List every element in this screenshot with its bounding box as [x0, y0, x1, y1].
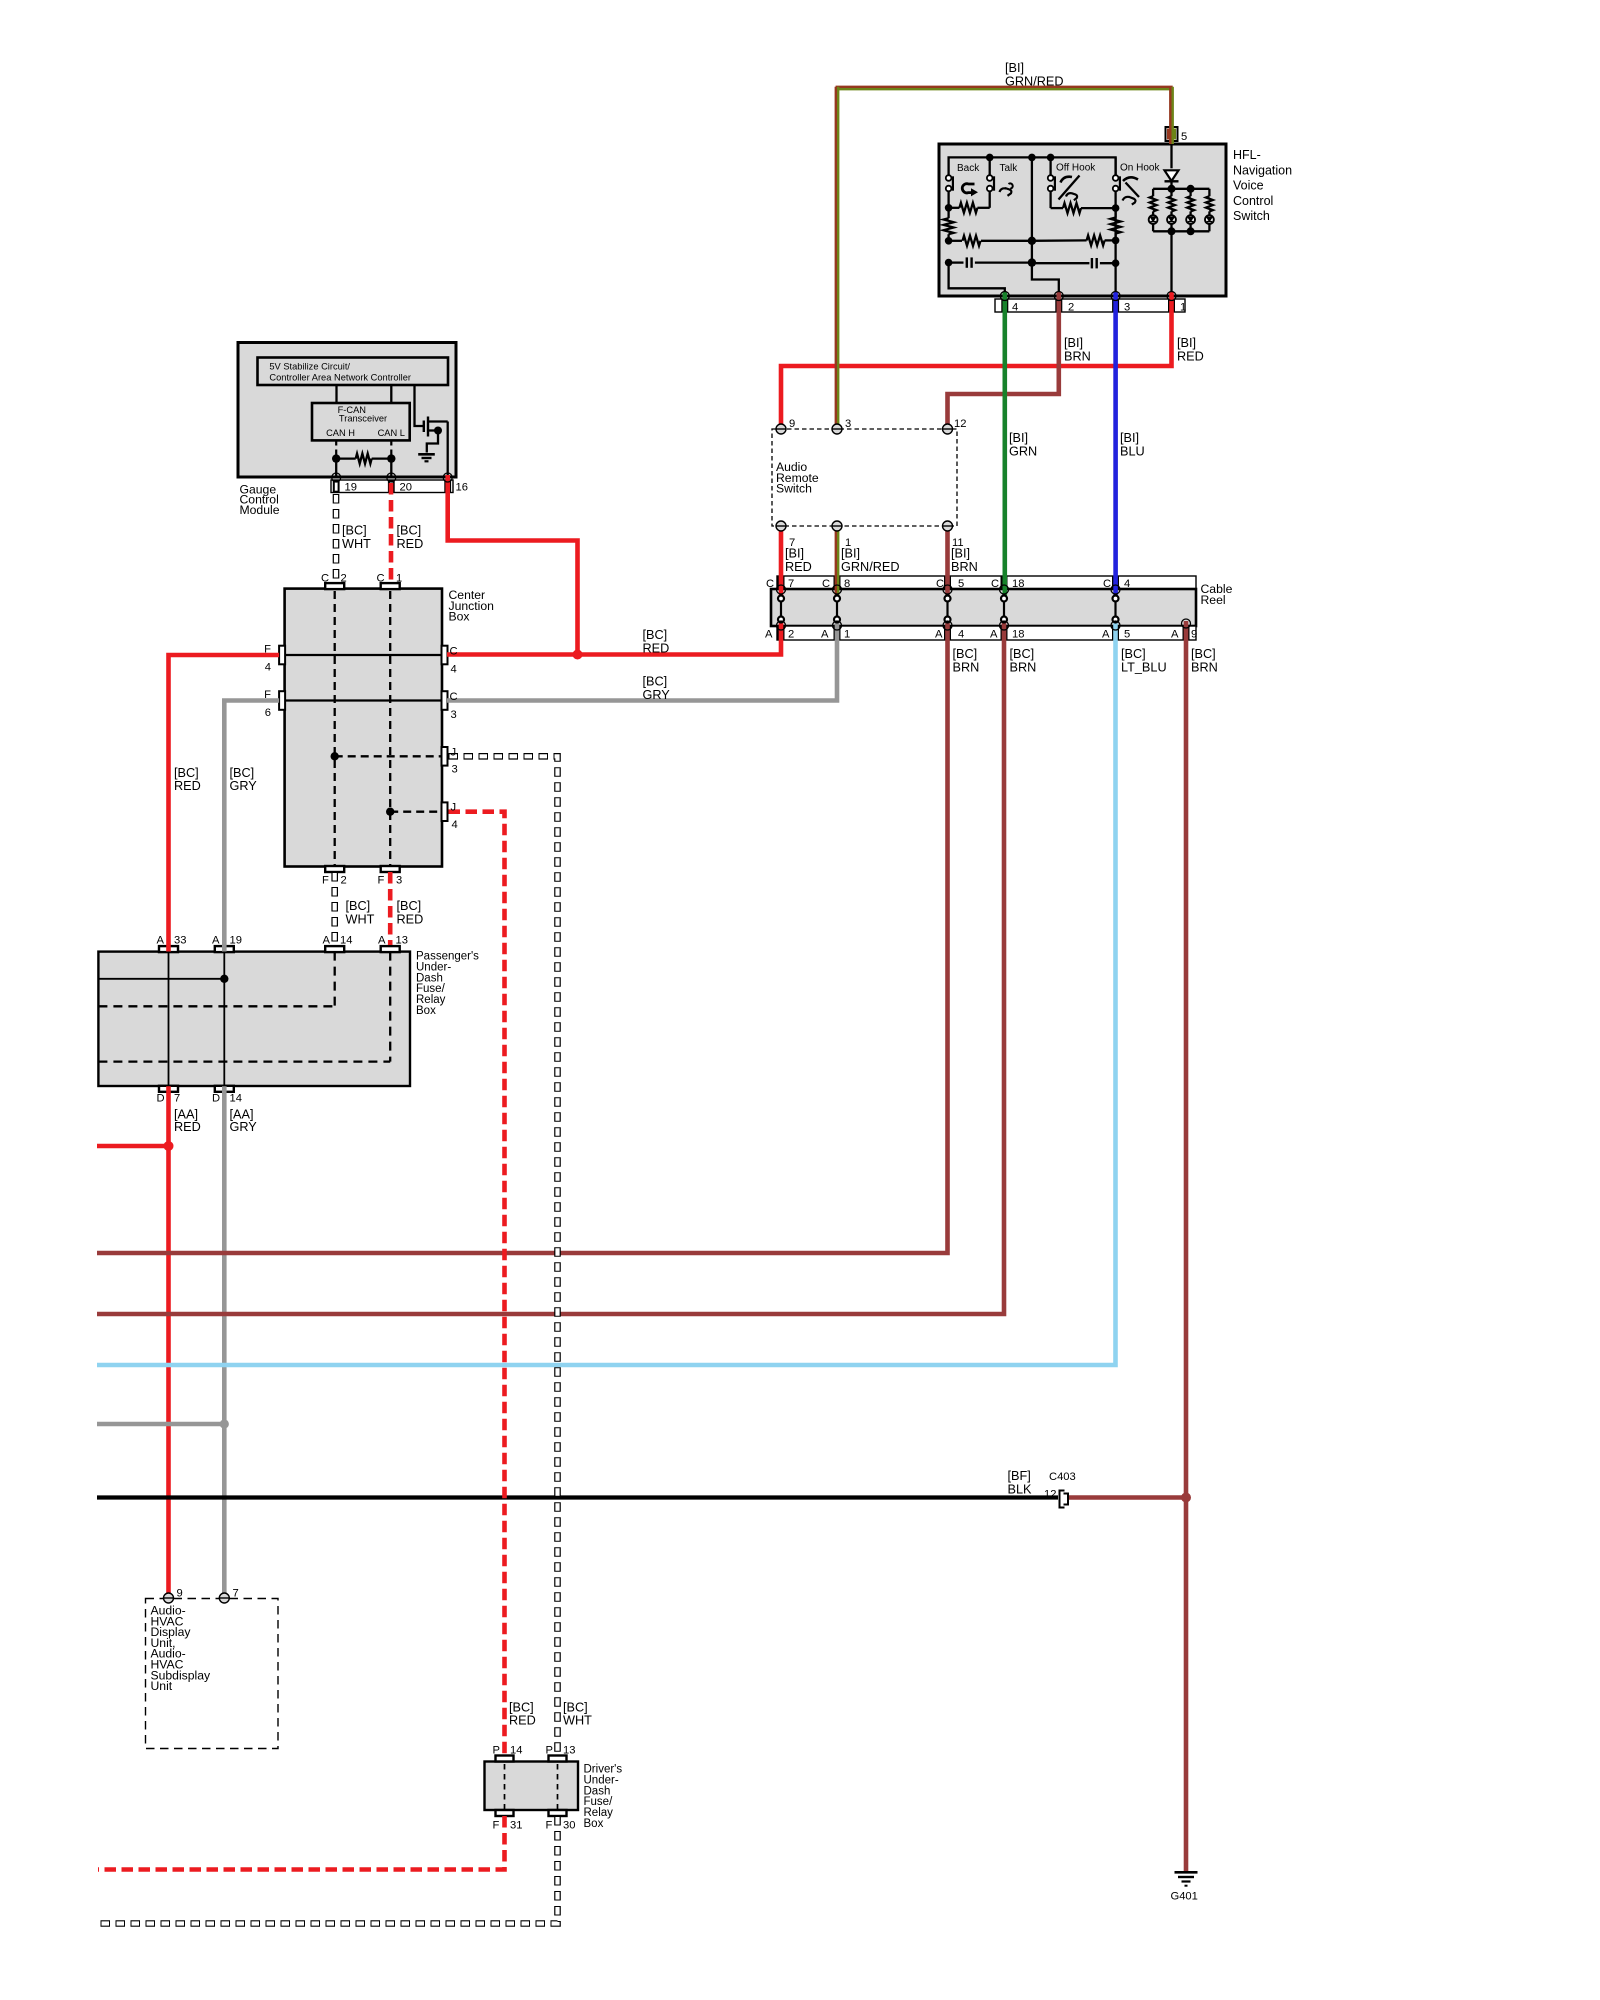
pin circles of HFL bottom row [1000, 292, 1009, 301]
resistor vertical below Back node [947, 208, 949, 218]
svg-text:RED: RED [509, 1714, 536, 1728]
resistor row 2 to center bus [949, 240, 962, 242]
wire [BI] GRN HFL pin 4 to Cable Reel C18 [1002, 292, 1007, 598]
svg-text:Module: Module [240, 503, 280, 517]
wire CAN L node to pin 20 [390, 459, 392, 477]
capacitor row right [1032, 262, 1090, 264]
pin C2 of Center Junction Box [325, 583, 344, 589]
svg-text:On Hook: On Hook [1120, 163, 1160, 174]
pin C3 of Center Junction Box [442, 691, 448, 710]
Cable Reel C-row connector strip [777, 576, 1196, 589]
internal line A33 to D7 [168, 952, 170, 1086]
svg-text:A: A [935, 629, 943, 641]
svg-text:20: 20 [400, 481, 412, 493]
wire controller to F-CAN transceiver CAN H side [335, 385, 337, 403]
transistor in Gauge Control Module [423, 421, 425, 433]
pin D14 of fuse box [215, 1086, 234, 1092]
svg-text:4: 4 [1012, 302, 1018, 314]
svg-text:4: 4 [958, 629, 964, 641]
junction dot brown at C403 wire [1181, 1493, 1191, 1503]
svg-text:Switch: Switch [1233, 209, 1270, 223]
wire controller to F-CAN transceiver CAN L side [390, 385, 392, 403]
pass-through contacts inside cable reel [778, 596, 784, 602]
svg-text:A: A [323, 934, 331, 946]
wire [AA] GRY PUD D14 down to Audio-HVAC Display Unit pin 7 [222, 1086, 227, 1593]
F-CAN Transceiver inner box [312, 403, 410, 440]
pin markers Cable Reel C row [779, 577, 784, 588]
pin circles GCM 19 20 16 [332, 473, 341, 482]
svg-text:3: 3 [845, 418, 851, 430]
svg-text:2: 2 [341, 875, 347, 887]
pin 7 of Audio Remote Switch [776, 521, 786, 531]
wire [BC] GRY CJB F6 to PUD A19 [224, 701, 279, 952]
svg-text:1: 1 [844, 629, 850, 641]
Passenger's Under-Dash Fuse/Relay Box body [98, 952, 410, 1086]
svg-text:[BI]: [BI] [841, 546, 860, 560]
svg-text:A: A [378, 934, 386, 946]
svg-text:4: 4 [265, 662, 271, 674]
capacitor row left [949, 261, 964, 263]
wire [BC] BRN from connector C403 to A9 wire [1068, 1495, 1186, 1500]
svg-text:RED: RED [643, 641, 670, 655]
wire [BC] RED GCM pin 16 to junction [448, 475, 578, 655]
pin markers Cable Reel A row [779, 627, 784, 639]
svg-text:5: 5 [1124, 629, 1130, 641]
internal dashed line P13 to F30 [557, 1764, 559, 1810]
ground symbol inside Gauge Control Module [418, 453, 435, 456]
svg-text:Transceiver: Transceiver [339, 413, 387, 423]
svg-text:[BC]: [BC] [397, 899, 422, 913]
internal dashed line P14 to F31 [504, 1764, 506, 1810]
pin A33 of fuse box [159, 946, 178, 952]
svg-text:3: 3 [396, 875, 402, 887]
wire [BC] RED Cable Reel A2 to Center Junction Box C4 [447, 622, 781, 655]
olive fill of pin 5 connector slot [1167, 129, 1172, 140]
svg-text:[BC]: [BC] [643, 628, 668, 642]
svg-text:9: 9 [177, 1588, 183, 1600]
svg-text:Reel: Reel [1201, 593, 1226, 607]
dashed wire [BC] RED CJB F3 to PUD A13 [388, 872, 393, 945]
svg-text:[BC]: [BC] [174, 766, 199, 780]
connector slot pin 5 of HFL switch [1166, 127, 1178, 141]
pin A13 of fuse box [381, 946, 400, 952]
pin C4 of Center Junction Box [442, 646, 448, 665]
svg-text:Unit: Unit [151, 1679, 173, 1693]
dashed wire white from CJB J3 right and down to Driver's box P13 [449, 756, 558, 1756]
svg-text:[BI]: [BI] [1005, 61, 1024, 75]
pin 9 of Audio-HVAC Display Unit [164, 1593, 174, 1603]
pin F2 of Center Junction Box [325, 866, 344, 872]
wire [BI] GRN/RED ARS pin1 to Cable Reel C8 [835, 526, 837, 597]
svg-text:Talk: Talk [1000, 163, 1019, 174]
Cable Reel A-row connector strip [777, 626, 1196, 640]
svg-text:C: C [936, 578, 944, 590]
internal dashed branch to J3 [335, 755, 442, 757]
pin D7 of fuse box [159, 1086, 178, 1092]
svg-text:[BC]: [BC] [1010, 647, 1035, 661]
svg-text:7: 7 [174, 1093, 180, 1105]
svg-text:2: 2 [1068, 302, 1074, 314]
pin F4 of Center Junction Box [279, 646, 285, 665]
svg-text:J: J [451, 801, 457, 813]
svg-text:9: 9 [1191, 629, 1197, 641]
svg-text:F: F [546, 1820, 553, 1832]
svg-text:6: 6 [265, 707, 271, 719]
pin F31 of Driver's box [496, 1810, 514, 1816]
wire On Hook node to pin 3 [1114, 208, 1116, 263]
svg-text:WHT: WHT [346, 912, 375, 926]
svg-text:CAN H: CAN H [326, 428, 355, 438]
internal dashed line from A13 [389, 952, 391, 1062]
svg-text:BRN: BRN [1064, 349, 1091, 363]
svg-text:Box: Box [449, 610, 470, 624]
svg-text:P: P [546, 1745, 553, 1757]
svg-text:C: C [450, 646, 458, 658]
pin 3 of Audio Remote Switch [832, 424, 842, 434]
svg-text:[BI]: [BI] [785, 546, 804, 560]
pin A14 of fuse box [325, 946, 344, 952]
Gauge Control Module box [238, 343, 456, 478]
wire LED bank to pin 1 [1170, 231, 1172, 296]
wire [BC] BRN Cable Reel A4 to left edge [97, 622, 948, 1254]
svg-text:19: 19 [345, 481, 357, 493]
LED bank top bus [1153, 188, 1209, 190]
svg-text:4: 4 [451, 664, 457, 676]
svg-text:[BI]: [BI] [1009, 431, 1028, 445]
internal line F6 to C3 [285, 699, 442, 701]
terminating resistor between CAN H and CAN L [336, 457, 356, 459]
internal branch line to A19 node [98, 978, 224, 980]
LED branches with resistors [1152, 189, 1154, 196]
svg-text:LT_BLU: LT_BLU [1121, 660, 1167, 674]
svg-text:31: 31 [510, 1820, 522, 1832]
wire [BI] GRN/RED from HFL pin 5 to Audio Remote Switch pin 3 [836, 86, 1173, 88]
svg-text:C: C [822, 578, 830, 590]
svg-text:3: 3 [452, 764, 458, 776]
dashed wire [BC] WHT CJB F2 to PUD A14 [331, 872, 338, 944]
svg-text:[BC]: [BC] [342, 524, 367, 538]
svg-text:WHT: WHT [342, 537, 371, 551]
svg-text:F: F [322, 875, 329, 887]
resistor row from On Hook node to center bus [1105, 239, 1116, 241]
svg-text:C: C [377, 573, 385, 585]
wire [BI] RED ARS pin7 to Cable Reel C7 [779, 526, 784, 597]
svg-text:J: J [451, 746, 457, 758]
svg-text:BRN: BRN [953, 660, 980, 674]
wire [BI] BRN HFL pin 2 to Audio Remote Switch pin 12 [948, 292, 1059, 430]
svg-text:GRN/RED: GRN/RED [841, 560, 900, 574]
switch Talk contacts [987, 175, 993, 181]
dashed wire [BC] RED GCM pin 20 to CJB C1 [389, 483, 394, 584]
wire On Hook lower contact to node [1114, 191, 1116, 208]
Center Junction Box body [285, 589, 442, 867]
svg-text:1: 1 [1180, 302, 1186, 314]
stub wire red to left edge [97, 1144, 169, 1149]
dashed wire CAN H to pin 19 node [335, 441, 337, 459]
svg-text:C: C [766, 578, 774, 590]
svg-text:14: 14 [230, 1093, 242, 1105]
wire pin 5 to diode [1170, 144, 1172, 168]
svg-text:Navigation: Navigation [1233, 163, 1292, 177]
pin P13 of Driver's box [549, 1756, 567, 1762]
svg-text:33: 33 [174, 934, 186, 946]
Cable Reel body [771, 589, 1196, 626]
Audio Remote Switch dashed box [772, 429, 957, 526]
LED bank bottom bus [1153, 230, 1209, 232]
icon Talk handset [1000, 188, 1007, 192]
pin J4 of Center Junction Box [442, 802, 448, 821]
svg-text:[BI]: [BI] [1064, 336, 1083, 350]
svg-text:Box: Box [416, 1005, 436, 1017]
junction of pin16 red wire with A2-C4 red wire [573, 650, 583, 660]
svg-text:Box: Box [584, 1818, 604, 1830]
dashed wire [BC] RED from CJB J4 down to Driver's box P14 [449, 812, 505, 1757]
svg-text:RED: RED [174, 779, 201, 793]
pin A19 of fuse box [215, 946, 234, 952]
svg-text:C: C [321, 573, 329, 585]
svg-text:[BC]: [BC] [563, 1700, 588, 1714]
HFL-Navigation Voice Control Switch box [939, 144, 1226, 296]
svg-text:BRN: BRN [1191, 660, 1218, 674]
svg-text:C: C [991, 578, 999, 590]
svg-text:7: 7 [788, 578, 794, 590]
svg-text:C: C [1103, 578, 1111, 590]
svg-text:[BC]: [BC] [953, 647, 978, 661]
svg-text:[BI]: [BI] [1177, 336, 1196, 350]
svg-text:[BC]: [BC] [1121, 647, 1146, 661]
svg-text:[BC]: [BC] [346, 899, 371, 913]
wire [AA] RED PUD D7 down to Audio-HVAC Display Unit pin 9 [166, 1086, 171, 1593]
wire [BF] BLK across page to connector C403 [97, 1495, 1058, 1499]
internal dashed line C2 to F2 [334, 591, 336, 866]
svg-text:12: 12 [954, 418, 966, 430]
svg-text:5V Stabilize Circuit/: 5V Stabilize Circuit/ [269, 362, 350, 372]
svg-text:Voice: Voice [1233, 179, 1264, 193]
svg-text:BRN: BRN [1010, 660, 1037, 674]
connector C403 bracket symbol [1060, 1491, 1065, 1508]
pin circles Cable Reel A row [777, 621, 786, 630]
wire [BI] BLU HFL pin 3 to Cable Reel C14 [1113, 292, 1118, 598]
svg-text:A: A [821, 629, 829, 641]
svg-text:30: 30 [563, 1820, 575, 1832]
svg-text:5: 5 [1181, 131, 1187, 143]
pin C1 of Center Junction Box [381, 583, 400, 589]
svg-text:3: 3 [451, 709, 457, 721]
wire [BI] RED HFL pin 1 to Audio Remote Switch pin 9 [781, 292, 1172, 430]
Audio-HVAC Display Unit dashed box [146, 1599, 279, 1749]
internal dashed branch to J4 [390, 811, 441, 813]
svg-text:12: 12 [1044, 1489, 1056, 1501]
svg-text:9: 9 [789, 418, 795, 430]
wire [BC] LT_BLU Cable Reel A5 to left edge [97, 622, 1116, 1366]
icon On Hook handset on cradle [1123, 177, 1138, 181]
svg-text:3: 3 [1124, 302, 1130, 314]
svg-text:A: A [990, 629, 998, 641]
svg-text:GRY: GRY [643, 688, 671, 702]
HFL bottom connector strip pins 4 2 3 1 [995, 299, 1185, 312]
internal line A19 to D14 [223, 952, 225, 1086]
wire controller to transistor gate [415, 385, 424, 426]
svg-text:1: 1 [396, 573, 402, 585]
switch Off Hook contacts [1049, 157, 1051, 174]
internal dashed line C1 to F3 [389, 591, 391, 866]
svg-text:BLU: BLU [1120, 444, 1145, 458]
internal dashed line from A14 [334, 952, 336, 1007]
pin circles Cable Reel C row [777, 585, 786, 594]
svg-text:F: F [378, 875, 385, 887]
svg-text:[BC]: [BC] [1191, 647, 1216, 661]
pin P14 of Driver's box [496, 1756, 514, 1762]
dashed wire CAN L to pin 20 node [390, 441, 392, 459]
svg-text:13: 13 [563, 1745, 575, 1757]
svg-text:A: A [1102, 629, 1110, 641]
5V Stabilize Circuit / CAN Controller inner box [258, 358, 449, 386]
center vertical bus to pin 2 [1031, 157, 1033, 263]
icon Back return arrow [962, 184, 974, 193]
internal line F4 to C4 [285, 654, 442, 656]
dashed wire [BC] RED from F31 of Driver's box to left edge [98, 1816, 505, 1870]
svg-text:14: 14 [340, 934, 352, 946]
svg-text:[BC]: [BC] [230, 766, 255, 780]
svg-text:RED: RED [397, 912, 424, 926]
svg-text:Control: Control [1233, 194, 1273, 208]
svg-text:4: 4 [1124, 578, 1130, 590]
svg-text:GRN: GRN [1009, 444, 1037, 458]
svg-text:BRN: BRN [951, 560, 978, 574]
svg-text:8: 8 [844, 578, 850, 590]
svg-text:[BI]: [BI] [1120, 431, 1139, 445]
wire transistor drain to pin 16 [447, 422, 449, 478]
diode in HFL switch [1165, 170, 1179, 181]
svg-text:18: 18 [1012, 578, 1024, 590]
svg-text:18: 18 [1012, 629, 1024, 641]
svg-text:A: A [765, 629, 773, 641]
svg-text:WHT: WHT [563, 1714, 592, 1728]
Driver's Under-Dash Fuse/Relay Box body [485, 1762, 579, 1811]
svg-text:A: A [157, 934, 165, 946]
stub wire gray to left edge [97, 1422, 224, 1427]
resistor between Back and Talk lower contacts [949, 207, 960, 209]
svg-text:Back: Back [957, 163, 980, 174]
wire Back lower contact to resistor row [947, 191, 949, 208]
dashed wire [BC] WHT GCM pin 19 to CJB C2 [333, 494, 340, 582]
pin 7 of Audio-HVAC Display Unit [219, 1593, 229, 1603]
svg-text:7: 7 [233, 1588, 239, 1600]
svg-text:5: 5 [958, 578, 964, 590]
svg-text:C: C [450, 691, 458, 703]
svg-text:[BI]: [BI] [951, 546, 970, 560]
svg-text:CAN L: CAN L [378, 428, 405, 438]
svg-text:RED: RED [174, 1120, 201, 1134]
pin circle Cable Reel A9 [1182, 619, 1191, 628]
wire capacitor node to pin 4 [949, 263, 1005, 296]
pin 9 of Audio Remote Switch [776, 424, 786, 434]
pin 1 of Audio Remote Switch [832, 521, 842, 531]
svg-text:[BF]: [BF] [1008, 1469, 1031, 1483]
svg-text:F: F [264, 644, 271, 656]
svg-text:2: 2 [788, 629, 794, 641]
pin F3 of Center Junction Box [381, 866, 400, 872]
svg-text:F: F [493, 1820, 500, 1832]
svg-text:Off Hook: Off Hook [1056, 163, 1096, 174]
svg-text:G401: G401 [1171, 1891, 1198, 1903]
svg-text:[BC]: [BC] [397, 524, 422, 538]
svg-text:14: 14 [510, 1745, 522, 1757]
dashed wire white from F30 of Driver's box to left edge [98, 1816, 558, 1924]
svg-text:Controller Area Network Contro: Controller Area Network Controller [269, 373, 411, 383]
svg-text:GRY: GRY [230, 1120, 258, 1134]
pin F6 of Center Junction Box [279, 691, 285, 710]
pin 12 of Audio Remote Switch [943, 424, 953, 434]
svg-text:Switch: Switch [776, 482, 812, 496]
svg-text:RED: RED [397, 537, 424, 551]
pin 11 of Audio Remote Switch [943, 521, 953, 531]
wire [BC] GRY Cable Reel A1 to Center Junction Box C3 [447, 622, 837, 701]
svg-text:19: 19 [230, 934, 242, 946]
wire [BI] BRN ARS pin11 to Cable Reel C5 [945, 526, 950, 597]
svg-text:A: A [212, 934, 220, 946]
Gauge Control Module connector strip pins 19 20 16 [331, 480, 453, 493]
svg-text:2: 2 [341, 573, 347, 585]
ground G401 symbol [1175, 1871, 1198, 1874]
svg-text:[BC]: [BC] [643, 675, 668, 689]
wire Off Hook lower to resistor [1049, 191, 1051, 208]
svg-text:P: P [493, 1745, 500, 1757]
svg-text:16: 16 [456, 481, 468, 493]
svg-text:RED: RED [1177, 349, 1204, 363]
junction dot red above Audio-HVAC unit [164, 1141, 174, 1151]
svg-text:RED: RED [785, 560, 812, 574]
svg-text:GRY: GRY [230, 779, 258, 793]
resistor vertical below On Hook node [1114, 208, 1116, 217]
pin J3 of Center Junction Box [442, 747, 448, 766]
svg-text:BLK: BLK [1008, 1482, 1033, 1496]
pin F30 of Driver's box [549, 1810, 567, 1816]
junction dot gray [220, 1419, 229, 1428]
svg-text:GRN/RED: GRN/RED [1005, 74, 1064, 88]
svg-text:F: F [264, 689, 271, 701]
svg-text:4: 4 [452, 819, 458, 831]
svg-text:HFL-: HFL- [1233, 148, 1261, 162]
svg-text:A: A [1171, 629, 1179, 641]
svg-text:D: D [212, 1093, 220, 1105]
switch On Hook contacts [1114, 157, 1116, 174]
svg-text:[BC]: [BC] [509, 1700, 534, 1714]
svg-text:C403: C403 [1049, 1471, 1076, 1483]
wire [BC] RED CJB F4 to PUD A33 [169, 655, 280, 952]
switch Back contacts [989, 157, 991, 174]
wire [BC] BRN Cable Reel A9 to ground G401 [1184, 621, 1189, 1871]
wire [BC] BRN Cable Reel A18 to left edge [97, 622, 1004, 1315]
svg-text:D: D [157, 1093, 165, 1105]
icon Off Hook lifted handset with slash [1061, 177, 1073, 183]
svg-text:13: 13 [396, 934, 408, 946]
wire CAN H node to pin 19 [335, 459, 337, 477]
internal top bus of HFL switch [949, 157, 1116, 174]
